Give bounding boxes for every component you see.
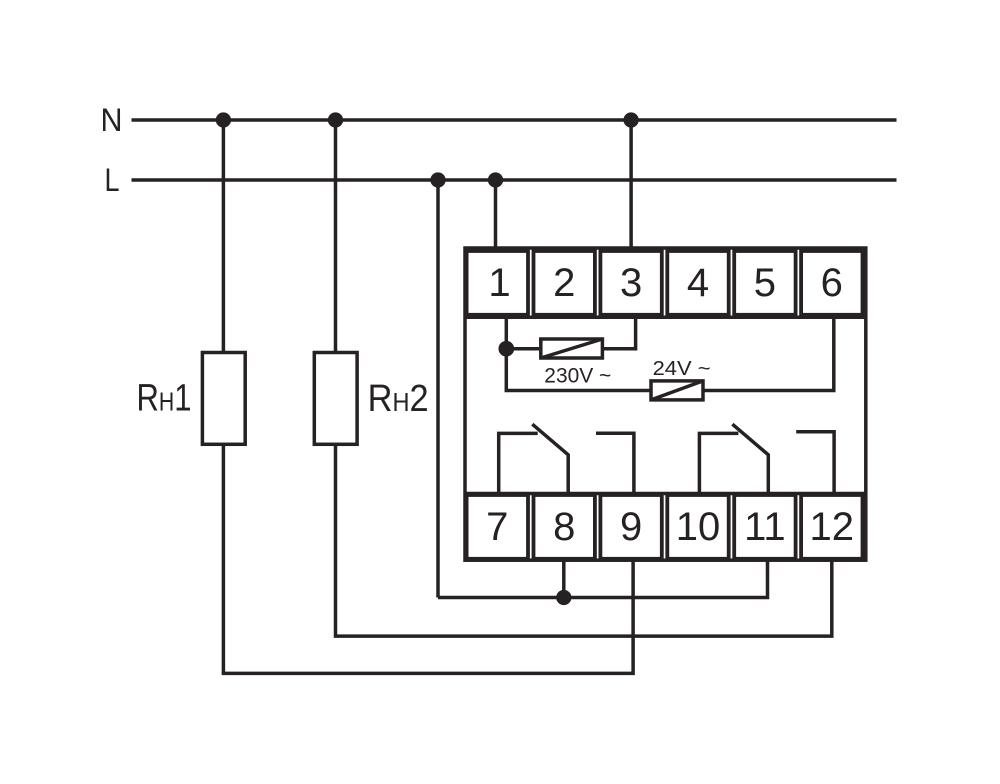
wire coil K2 to terminal 6: [703, 317, 834, 390]
junction L-feed: [432, 174, 444, 186]
wire Rh2 bottom: [336, 444, 832, 636]
terminal 10: [667, 495, 728, 559]
junction N-terminal3: [625, 114, 637, 126]
terminal 7: [467, 495, 528, 559]
wire N to Rh2 top: [334, 120, 338, 353]
svg-text:12: 12: [810, 505, 855, 549]
terminal 12: [801, 495, 862, 559]
junction N-Rh1: [218, 114, 230, 126]
svg-text:RH1: RH1: [137, 378, 192, 420]
coil K2 24V: [651, 381, 703, 400]
terminal 4: [667, 251, 728, 315]
terminal 6: [801, 251, 862, 315]
wire N to terminal 3: [629, 120, 633, 248]
wire node to coil K2: [506, 349, 652, 391]
wire node to coil K1: [506, 347, 539, 351]
svg-text:5: 5: [754, 261, 776, 305]
wire L to terminal 1: [494, 180, 498, 248]
terminal 8: [534, 495, 595, 559]
svg-text:N: N: [101, 102, 123, 138]
wire terminal1 to coil node: [505, 317, 509, 348]
svg-text:1: 1: [488, 261, 510, 305]
terminal 2: [534, 251, 595, 315]
svg-text:6: 6: [821, 261, 843, 305]
wire coil K1 to terminal 3: [603, 317, 636, 348]
terminal 5: [734, 251, 795, 315]
terminal 3: [600, 251, 661, 315]
contact K1 arm terminal 8: [532, 424, 568, 493]
coil K1 230V: [541, 339, 603, 358]
wire Rh1 bottom: [223, 444, 633, 673]
svg-text:4: 4: [687, 261, 709, 305]
relay module outline U1: [465, 248, 866, 560]
terminal 9: [600, 495, 661, 559]
junction N-Rh2: [330, 114, 342, 126]
wire terminal 8 down: [562, 560, 566, 598]
svg-text:RH2: RH2: [368, 378, 429, 420]
wire N to Rh1 top: [222, 120, 226, 353]
svg-text:7: 7: [486, 505, 508, 549]
wire L feed down: [436, 180, 440, 598]
wire L bus: [132, 178, 897, 182]
wire L feed to terminal 11: [438, 560, 768, 598]
svg-text:3: 3: [620, 261, 642, 305]
junction coil node: [500, 343, 512, 355]
svg-text:24V ~: 24V ~: [653, 358, 711, 380]
partition line lower: [465, 492, 866, 496]
wire N bus: [132, 118, 897, 122]
junction L-terminal1: [490, 174, 502, 186]
contact K2 fixed NC terminal 10: [699, 433, 738, 493]
contact K1 fixed NC terminal 7: [499, 433, 538, 493]
svg-text:11: 11: [744, 505, 786, 549]
svg-text:9: 9: [620, 505, 642, 549]
svg-text:2: 2: [553, 261, 575, 305]
partition line upper: [465, 316, 866, 320]
resistor Rh1: [202, 353, 245, 445]
svg-text:10: 10: [676, 505, 721, 549]
svg-text:L: L: [105, 162, 120, 198]
terminal 1: [467, 251, 528, 315]
junction L-feed terminal 8: [558, 592, 570, 604]
contact K2 fixed NO terminal 12: [796, 432, 834, 494]
contact K1 fixed NO terminal 9: [596, 433, 634, 493]
resistor Rh2: [314, 353, 357, 445]
svg-text:230V ~: 230V ~: [544, 364, 611, 387]
contact K2 arm terminal 11: [732, 424, 768, 493]
terminal 11: [734, 495, 795, 559]
svg-text:8: 8: [553, 505, 575, 549]
